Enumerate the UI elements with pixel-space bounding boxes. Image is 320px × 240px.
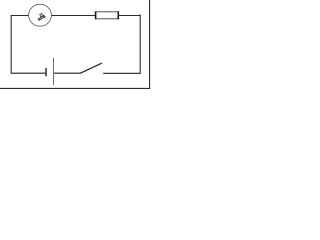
wire bottom-left horizontal xyxy=(11,72,46,74)
resistor R1 right edge xyxy=(117,11,119,19)
lamp L1 circle xyxy=(29,4,52,26)
battery B1 negative plate (short) xyxy=(45,68,47,77)
wire left vertical xyxy=(10,15,12,73)
table cell border right xyxy=(149,0,151,89)
resistor R1 body xyxy=(96,12,119,19)
wire top-left horizontal xyxy=(11,15,29,17)
switch S1 blade xyxy=(80,63,102,73)
wire lamp to resistor xyxy=(51,15,95,17)
battery B1 positive plate (long) xyxy=(53,58,55,85)
wire battery to switch pivot xyxy=(54,72,81,74)
table cell border bottom xyxy=(0,87,150,89)
wire right vertical xyxy=(139,14,141,73)
lamp L1 filament glyph xyxy=(38,13,45,20)
wire bottom-right horizontal xyxy=(103,72,141,74)
wire resistor to top-right corner xyxy=(118,15,140,17)
resistor R1 left edge xyxy=(95,11,97,19)
